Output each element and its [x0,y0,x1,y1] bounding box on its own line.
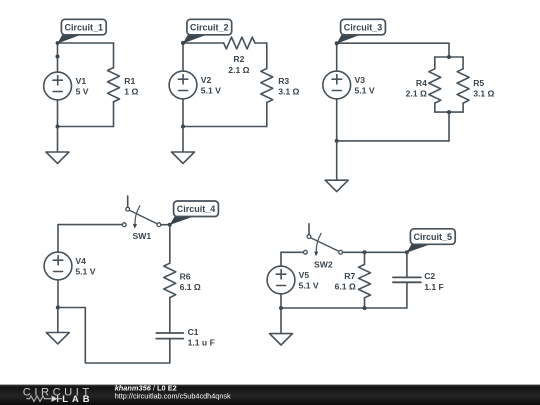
wire top C3 [337,42,449,44]
wire parallel top bar C3 [435,56,463,58]
svg-text:Circuit_5: Circuit_5 [414,232,453,242]
svg-text:V5: V5 [299,270,310,280]
wire left upper C3 [336,43,338,71]
svg-text:LAB: LAB [62,393,93,404]
wire right drop C3 [448,43,450,57]
voltage source V1 [44,72,72,100]
junction dot parallel bottom [447,110,451,114]
wire SW2 to R7 [343,251,407,253]
junction dot C3 bottom left [335,139,339,143]
svg-text:R6: R6 [180,271,191,281]
wire bottom C4 [58,308,170,364]
svg-text:SW2: SW2 [314,260,333,270]
junction dot C3 top left [335,41,339,45]
svg-text:3.1 Ω: 3.1 Ω [278,87,299,97]
wire parallel bottom bar C3 [435,111,463,113]
junction dot R7 top [363,250,367,254]
voltage source V4 [44,252,72,280]
svg-text:R2: R2 [233,54,244,64]
ground C4 [46,308,69,344]
ground C2 [172,127,195,164]
wire R5 top stub [462,57,464,69]
svg-text:5.1 V: 5.1 V [75,267,95,277]
logo diode glyph [52,396,63,402]
svg-text:1.1 u F: 1.1 u F [188,338,215,348]
svg-text:R3: R3 [278,76,289,86]
svg-text:C1: C1 [188,327,199,337]
svg-text:R7: R7 [344,271,355,281]
wire left upper C5 [280,252,282,266]
junction dot parallel top [447,55,451,59]
wire bottom C2 [183,126,267,128]
svg-text:3.1 Ω: 3.1 Ω [473,89,494,99]
label Circuit_2 [183,19,232,43]
wire SW1 to node [161,224,170,226]
svg-text:5.1 V: 5.1 V [355,86,375,96]
wire left lower C2 [182,99,184,127]
svg-text:V3: V3 [355,75,366,85]
wire bottom C3 [337,140,449,142]
resistor R5 [457,69,469,103]
wire right upper C2 [266,43,268,69]
ground C5 [270,308,293,345]
wire C2 top stub [406,252,408,277]
label Circuit_3 [337,19,386,43]
wire C2 bottom stub [406,282,408,308]
wire left lower C5 [280,294,282,308]
wire R6 to C1 [169,298,171,333]
wire left lower C1 [57,100,59,127]
label Circuit_4 [170,201,219,225]
svg-text:5 V: 5 V [76,87,89,97]
wire top C1 [58,42,114,44]
logo resistor glyph [27,396,52,402]
wire right upper C4 [169,225,171,264]
capacitor C1 [156,333,183,339]
wire bottom C1 [58,126,114,128]
svg-text:5.1 V: 5.1 V [201,86,221,96]
node C1 corner [56,41,60,45]
svg-text:Circuit_2: Circuit_2 [190,22,229,32]
wire R4 top stub [434,57,436,69]
wire R7 top stub [364,252,366,264]
wire left lower C4 [57,280,59,308]
junction dot C4 node [168,223,172,227]
svg-text:http://circuitlab.com/c5ub4cdh: http://circuitlab.com/c5ub4cdh4qnsk [115,391,231,400]
wire right lower C2 [266,103,268,127]
svg-text:R4: R4 [416,78,427,88]
wire top left C5 [281,251,303,253]
wire C1 down [169,339,171,363]
junction dot R7 bottom [363,306,367,310]
resistor R7 [359,264,371,297]
ground C1 [46,127,69,164]
wire bottom C5 [281,307,407,309]
junction dot C2 top [181,41,185,45]
voltage source V2 [169,71,197,99]
voltage source V5 [267,266,295,294]
svg-text:V1: V1 [76,76,87,86]
svg-text:2.1 Ω: 2.1 Ω [228,65,249,75]
svg-text:Circuit_1: Circuit_1 [65,22,104,32]
svg-text:R1: R1 [124,76,135,86]
capacitor C2 [393,277,421,282]
resistor R3 [261,69,273,103]
voltage source V3 [323,71,351,99]
wire R4 bottom stub [434,103,436,112]
svg-text:1.1 F: 1.1 F [424,282,444,292]
resistor R1 [108,43,120,127]
svg-text:V4: V4 [75,256,86,266]
resistor R6 [164,263,176,297]
label Circuit_5 [407,229,455,253]
svg-text:R5: R5 [473,78,484,88]
junction dot C2 top [405,250,409,254]
resistor R4 [429,69,441,103]
svg-text:SW1: SW1 [132,231,151,241]
wire left upper C1 [57,43,59,72]
wire R7 bottom stub [364,298,366,308]
junction dot C5 bottom left [279,306,283,310]
label Circuit_1 [57,19,106,43]
wire top left C2 [183,42,224,44]
wire left upper C2 [182,43,184,71]
svg-text:C2: C2 [424,271,435,281]
wire left upper C4 [57,225,59,253]
svg-text:6.1 Ω: 6.1 Ω [180,282,201,292]
svg-text:5.1 V: 5.1 V [299,281,319,291]
svg-text:6.1 Ω: 6.1 Ω [335,281,356,291]
junction dot C1 bottom [56,125,60,129]
junction dot C1 top [56,55,60,59]
junction dot C2 bottom [181,125,185,129]
resistor R2 [224,37,255,49]
wire left lower C3 [336,99,338,141]
switch SW2 [304,224,343,256]
svg-text:Circuit_4: Circuit_4 [177,204,216,214]
wire top right C2 [255,42,267,44]
switch SW1 [122,196,160,229]
wire right lower C3 [448,112,450,141]
svg-text:2.1 Ω: 2.1 Ω [406,89,427,99]
svg-text:Circuit_3: Circuit_3 [344,22,383,32]
wire R5 bottom stub [462,103,464,112]
ground C3 [325,141,348,192]
svg-text:1 Ω: 1 Ω [124,87,138,97]
wire top C4 [58,224,122,226]
svg-text:V2: V2 [201,75,212,85]
junction dot C4 bottom [56,306,60,310]
